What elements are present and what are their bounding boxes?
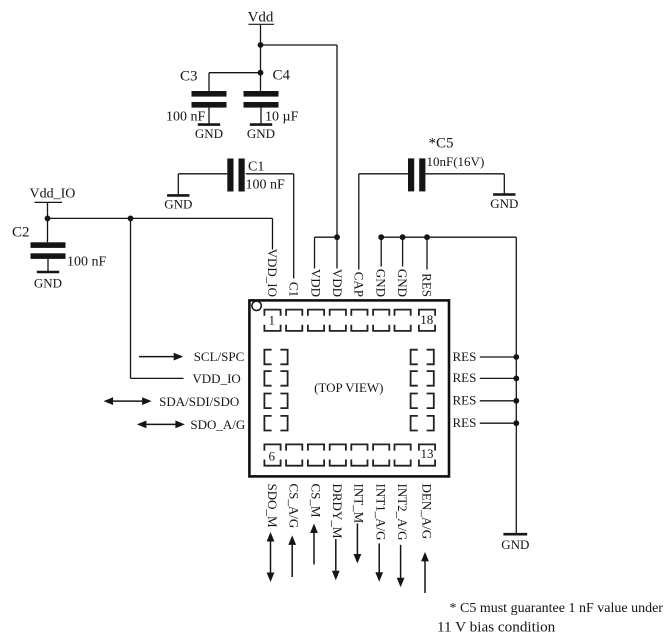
svg-text:GND: GND xyxy=(490,196,518,211)
svg-text:VDD: VDD xyxy=(308,269,323,297)
node RES top pin xyxy=(424,234,430,240)
wire RES 3 xyxy=(480,400,517,402)
svg-text:C2: C2 xyxy=(12,225,30,241)
node RES 4 junction xyxy=(513,420,519,426)
wire Vdd to VDD pins xyxy=(261,44,338,46)
svg-text:GND: GND xyxy=(501,537,529,552)
svg-text:SDA/SDI/SDO: SDA/SDI/SDO xyxy=(159,394,239,409)
wire junction to C4 xyxy=(260,73,262,91)
svg-text:(TOP VIEW): (TOP VIEW) xyxy=(314,380,383,395)
svg-text:CS_M: CS_M xyxy=(308,484,323,518)
svg-text:SDO_M: SDO_M xyxy=(265,484,280,529)
wire C3 to ground xyxy=(208,108,210,125)
capacitor C1 xyxy=(227,159,233,192)
node RES 2 junction xyxy=(513,376,519,382)
svg-text:RES: RES xyxy=(453,415,477,430)
wire C2 to ground xyxy=(47,259,49,272)
wire C1 to pin 2 xyxy=(246,173,294,175)
wire RES bus vertical xyxy=(515,237,517,534)
node RES 1 junction xyxy=(513,354,519,360)
ground C3 xyxy=(198,123,220,126)
ground C2 xyxy=(37,271,59,274)
svg-text:C4: C4 xyxy=(273,68,291,84)
wire C5 to ground xyxy=(425,173,504,175)
svg-text:VDD_IO: VDD_IO xyxy=(192,371,240,386)
svg-text:GND: GND xyxy=(395,269,410,297)
arrow SDO_M xyxy=(270,540,272,574)
U1 bottom pads xyxy=(264,444,280,465)
wire CAP pin to C5 xyxy=(359,173,408,175)
wire VDD branch to pin 3 xyxy=(315,236,338,238)
wire Vdd_IO rail xyxy=(48,217,273,219)
svg-text:11 V bias condition: 11 V bias condition xyxy=(437,619,556,636)
svg-text:C3: C3 xyxy=(180,69,198,85)
svg-text:VDD: VDD xyxy=(330,269,345,297)
node C3/C4 junction xyxy=(258,70,264,76)
svg-text:*C5: *C5 xyxy=(429,136,454,152)
arrow DEN_A/G xyxy=(424,560,426,593)
svg-text:GND: GND xyxy=(195,126,223,141)
svg-text:10nF(16V): 10nF(16V) xyxy=(427,154,485,169)
svg-text:RES: RES xyxy=(453,349,477,364)
wire Vdd vertical xyxy=(260,25,262,73)
ground C4 xyxy=(250,123,272,126)
U1 left pads xyxy=(264,350,287,365)
arrow INT2_A/G xyxy=(400,545,402,580)
op-amp U1 package outline (TOP VIEW) xyxy=(249,300,449,476)
node VDD branch xyxy=(334,234,340,240)
svg-text:1: 1 xyxy=(269,312,276,327)
svg-text:CAP: CAP xyxy=(352,272,367,297)
wire GND/RES rail xyxy=(381,236,516,238)
svg-text:Vdd_IO: Vdd_IO xyxy=(30,187,76,202)
svg-text:GND: GND xyxy=(247,126,275,141)
svg-text:* C5 must guarantee 1 nF value: * C5 must guarantee 1 nF value under xyxy=(450,601,664,616)
svg-text:C1: C1 xyxy=(287,282,302,297)
arrow DRDY_M xyxy=(335,539,337,572)
svg-text:VDD_IO: VDD_IO xyxy=(265,249,280,297)
svg-text:GND: GND xyxy=(374,269,389,297)
wire Vdd_IO down to left label xyxy=(130,218,132,378)
svg-text:DRDY_M: DRDY_M xyxy=(330,484,345,539)
svg-text:100 nF: 100 nF xyxy=(246,177,286,192)
wire junction to C3 xyxy=(209,72,261,74)
ground RES bus xyxy=(503,533,527,536)
node GND pin 2 xyxy=(400,234,406,240)
svg-text:Vdd: Vdd xyxy=(248,10,274,26)
svg-text:10 µF: 10 µF xyxy=(265,110,299,125)
svg-text:RES: RES xyxy=(419,273,434,297)
svg-text:INT1_A/G: INT1_A/G xyxy=(374,484,389,541)
wire RES 1 xyxy=(480,356,517,358)
arrow SCL/SPC input xyxy=(139,356,175,358)
arrow INT_M xyxy=(356,524,358,556)
wire C4 to ground xyxy=(260,108,262,125)
arrow CS_M xyxy=(313,532,315,565)
svg-text:INT2_A/G: INT2_A/G xyxy=(395,484,410,541)
ground C5 xyxy=(493,193,515,196)
svg-text:INT_M: INT_M xyxy=(352,484,367,524)
wire Vdd_IO vertical xyxy=(47,203,49,242)
arrow INT1_A/G xyxy=(378,543,380,573)
svg-text:18: 18 xyxy=(420,312,433,327)
node GND pin 1 xyxy=(378,234,384,240)
svg-text:RES: RES xyxy=(453,393,477,408)
svg-text:13: 13 xyxy=(421,446,434,461)
wire RES 2 xyxy=(480,377,517,379)
svg-text:GND: GND xyxy=(34,275,62,290)
ground C1 left xyxy=(178,173,227,175)
node Vdd junction upper xyxy=(258,42,264,48)
svg-text:GND: GND xyxy=(164,197,192,212)
U1 right pads xyxy=(411,350,434,365)
node Vdd_IO junction xyxy=(45,216,51,222)
svg-text:100 nF: 100 nF xyxy=(67,255,107,270)
arrow SDA/SDI/SDO bidirectional xyxy=(112,400,144,402)
arrow SDO_A/G bidirectional xyxy=(145,423,177,425)
svg-text:RES: RES xyxy=(453,370,477,385)
node RES 3 junction xyxy=(513,398,519,404)
svg-text:SCL/SPC: SCL/SPC xyxy=(194,349,245,364)
pin 1 indicator circle xyxy=(252,301,261,310)
svg-text:C1: C1 xyxy=(248,160,264,175)
svg-text:100 nF: 100 nF xyxy=(166,110,206,125)
svg-text:DEN_A/G: DEN_A/G xyxy=(419,484,434,540)
svg-text:SDO_A/G: SDO_A/G xyxy=(190,417,245,432)
U1 top pads xyxy=(264,310,280,331)
svg-text:CS_A/G: CS_A/G xyxy=(287,484,302,529)
wire RES 4 xyxy=(480,422,517,424)
arrow CS_A/G xyxy=(291,543,293,577)
node Vdd_IO branch xyxy=(128,216,134,222)
svg-text:6: 6 xyxy=(269,448,276,463)
